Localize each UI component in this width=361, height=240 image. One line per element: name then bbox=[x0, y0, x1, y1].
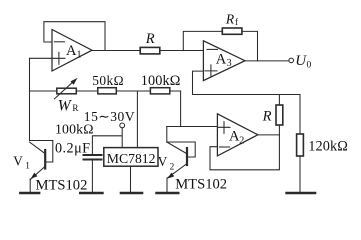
wire supply to regulator bbox=[121, 128, 123, 148]
transistor V1 collector lead bbox=[30, 142, 45, 153]
resistor R (right vertical) bbox=[276, 105, 283, 125]
wire A2 output bbox=[257, 134, 279, 136]
svg-text:100kΩ: 100kΩ bbox=[141, 73, 181, 89]
wire left rail bbox=[29, 58, 31, 140]
potentiometer WR arrow bbox=[55, 83, 73, 99]
wire A3 feedback left leg bbox=[183, 31, 222, 50]
transistor V2 base bar bbox=[186, 148, 188, 165]
op-amp A1 bbox=[52, 30, 92, 72]
svg-text:2: 2 bbox=[239, 135, 244, 146]
svg-text:3: 3 bbox=[227, 58, 232, 69]
svg-text:A: A bbox=[216, 51, 227, 67]
svg-text:2: 2 bbox=[170, 163, 175, 173]
wire 50k to 100k bbox=[116, 90, 150, 92]
regulator MC7812 box bbox=[104, 148, 158, 167]
svg-text:f: f bbox=[235, 17, 239, 28]
transistor V2 collector lead bbox=[167, 142, 187, 154]
svg-text:1: 1 bbox=[77, 50, 82, 61]
svg-text:MTS102: MTS102 bbox=[175, 176, 227, 192]
wire A3 output bbox=[245, 60, 289, 62]
resistor 100k (top) bbox=[150, 88, 169, 94]
svg-text:MC7812: MC7812 bbox=[107, 151, 156, 166]
op-amp A3 minus sign bbox=[207, 48, 218, 50]
transistor V1 emitter lead bbox=[30, 167, 44, 180]
wire A2 feedback loop bbox=[210, 135, 279, 170]
op-amp A2 minus sign bbox=[219, 146, 229, 148]
svg-text:U: U bbox=[295, 53, 307, 69]
wire A1 feedback loop bbox=[44, 22, 105, 51]
resistor 120k bbox=[297, 134, 304, 156]
resistor R (top) bbox=[140, 47, 160, 54]
svg-text:V: V bbox=[13, 154, 23, 169]
transistor V1 base bar bbox=[44, 150, 46, 169]
svg-text:V: V bbox=[158, 154, 168, 169]
op-amp A1 minus sign bbox=[54, 41, 64, 43]
wire V1 emitter down bbox=[29, 179, 31, 192]
wire 120k bottom bbox=[299, 156, 301, 192]
op-amp A2 plus sign bbox=[218, 122, 230, 134]
supply terminal 15~30V bbox=[120, 123, 125, 128]
wire A2 noninverting input bbox=[167, 126, 218, 128]
op-amp A2 bbox=[217, 114, 257, 156]
op-amp A1 plus sign bbox=[53, 52, 65, 64]
wire bridge row bbox=[30, 90, 57, 92]
potentiometer WR box bbox=[57, 88, 77, 94]
wire regulator ground bbox=[130, 166, 132, 192]
capacitor bottom wire bbox=[91, 161, 93, 193]
transistor V2 emitter lead bbox=[168, 164, 187, 178]
ground V2 bbox=[157, 192, 179, 195]
svg-text:R: R bbox=[145, 31, 155, 47]
svg-text:R: R bbox=[72, 103, 78, 113]
svg-text:0: 0 bbox=[307, 61, 312, 71]
transistor V2 base-collector short bbox=[167, 142, 195, 157]
wire 120k top bbox=[299, 95, 301, 135]
wire pot to 50k bbox=[76, 90, 98, 92]
ground V1 bbox=[20, 192, 39, 195]
transistor V2 collector drop bbox=[166, 127, 168, 143]
wire A1 output to R bbox=[92, 50, 140, 52]
svg-text:A: A bbox=[66, 43, 77, 59]
svg-text:MTS102: MTS102 bbox=[36, 177, 88, 193]
wire A3 feedback right leg bbox=[242, 31, 258, 61]
wire divider top to resistor R right bbox=[278, 95, 280, 106]
wire V2 emitter down bbox=[166, 178, 168, 192]
ground regulator bbox=[121, 192, 142, 195]
svg-text:R: R bbox=[225, 12, 235, 27]
capacitor 0.2uF top wire bbox=[92, 136, 121, 154]
wire R to A3 inverting input bbox=[160, 50, 204, 52]
capacitor 0.2uF plates bbox=[84, 154, 102, 156]
wire regulator output up to bridge junction bbox=[136, 91, 138, 148]
wire R bottom to A2 output bbox=[278, 125, 280, 135]
ground 120k bbox=[287, 192, 315, 195]
svg-text:R: R bbox=[262, 108, 272, 124]
resistor 50k bbox=[98, 88, 117, 94]
terminal U0 bbox=[289, 58, 294, 63]
wire A3 noninverting input to divider bbox=[193, 71, 301, 94]
svg-text:15∼30V: 15∼30V bbox=[84, 109, 135, 124]
svg-text:120kΩ: 120kΩ bbox=[308, 138, 348, 154]
wire 100k right and down to V2 node bbox=[170, 91, 181, 127]
ground capacitor bbox=[80, 192, 102, 195]
svg-text:W: W bbox=[58, 97, 73, 114]
wire A1 noninverting input bbox=[30, 57, 53, 59]
op-amp A3 bbox=[203, 41, 245, 81]
svg-text:1: 1 bbox=[25, 161, 30, 171]
op-amp A3 plus sign bbox=[205, 65, 217, 77]
resistor Rf bbox=[222, 28, 242, 34]
transistor V1 base-collector short bbox=[30, 141, 53, 163]
svg-text:0.2μF: 0.2μF bbox=[55, 140, 90, 156]
svg-text:50kΩ: 50kΩ bbox=[92, 73, 124, 88]
